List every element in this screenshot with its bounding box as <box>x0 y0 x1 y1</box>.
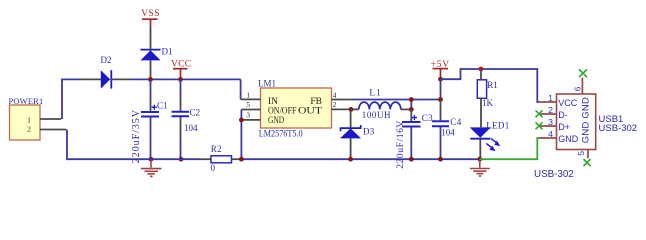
svg-text:104: 104 <box>184 123 198 133</box>
wire riser pin2 to bottom rail <box>67 130 199 160</box>
wire FB to C4 <box>440 100 442 121</box>
svg-text:4: 4 <box>548 129 553 139</box>
junction FB at C4 <box>438 97 443 102</box>
junction C1 bottom <box>149 157 154 162</box>
wire LM1 pin5 stub <box>241 109 260 111</box>
USB pin 2 stub <box>539 113 557 115</box>
wire R1 top stub <box>480 69 482 80</box>
svg-text:C1: C1 <box>157 100 168 110</box>
wire C4 to bottom rail <box>440 127 442 159</box>
svg-text:104: 104 <box>441 128 455 138</box>
junction at VCC rail <box>178 77 183 82</box>
junction D3 bottom <box>348 157 353 162</box>
capacitor C2 <box>172 112 190 116</box>
svg-text:5: 5 <box>246 101 250 109</box>
wire +5V step up and rail to USB <box>441 69 540 102</box>
wire R2 right gray segment <box>232 158 242 160</box>
wire gray segment to R2 <box>199 158 211 160</box>
svg-text:C3: C3 <box>422 113 433 123</box>
wire OUT to C3 <box>410 109 412 121</box>
svg-text:VSS: VSS <box>141 9 160 19</box>
junction OUT at C3 <box>409 107 414 112</box>
junction C3 bottom <box>409 157 414 162</box>
wire LM1 pin4 stub gray <box>332 99 352 101</box>
svg-text:D3: D3 <box>363 127 375 137</box>
svg-text:5: 5 <box>576 151 586 156</box>
svg-text:2: 2 <box>333 101 337 109</box>
schottky diode D3 <box>340 125 361 138</box>
wire D3 anode to bottom rail <box>350 138 352 159</box>
wire C3 column FB to OUT <box>410 100 412 110</box>
wire pin5 to pin3 to bottom rail <box>240 110 242 160</box>
wire C3 to bottom rail <box>410 128 412 160</box>
wire LM1 pin1 stub <box>241 98 261 100</box>
USB pin 6 stub <box>581 78 583 94</box>
resistor R2 <box>211 156 232 163</box>
wire rail to C2 <box>180 79 182 111</box>
junction pin3 <box>239 118 244 123</box>
ground symbol right <box>470 159 490 176</box>
USB pin 5 stub <box>587 150 589 159</box>
regulator U LM1 body <box>261 88 332 128</box>
ground symbol left <box>141 159 162 176</box>
svg-text:C4: C4 <box>450 117 461 127</box>
no-connect X pin 3 <box>536 122 543 129</box>
svg-text:R1: R1 <box>487 80 498 90</box>
resistor R1 <box>477 80 486 99</box>
wire C2 to bottom rail <box>180 117 182 159</box>
wire top rail blue segment <box>131 78 241 80</box>
svg-text:D2: D2 <box>101 55 112 65</box>
wire riser pin1 to top rail <box>62 79 81 119</box>
svg-text:220uF/16V: 220uF/16V <box>396 120 406 169</box>
svg-text:GND: GND <box>558 134 579 144</box>
svg-text:220uF/35V: 220uF/35V <box>131 109 142 163</box>
svg-text:USB-302: USB-302 <box>599 123 638 134</box>
power port VCC <box>171 60 191 80</box>
wire LM1 pin3 stub <box>241 119 260 121</box>
svg-text:2: 2 <box>548 105 553 115</box>
wire D1 anode to rail <box>150 60 152 79</box>
connector POWER1 body <box>10 105 41 140</box>
svg-text:LED1: LED1 <box>486 120 509 130</box>
junction OUT at D3 <box>349 107 354 112</box>
wire bottom rail blue <box>241 158 479 160</box>
diode D1 <box>141 50 161 61</box>
wire D2 cathode gray segment <box>111 78 131 80</box>
svg-text:1: 1 <box>27 116 31 124</box>
junction +5V <box>438 77 443 82</box>
junction C2 bottom <box>179 157 184 162</box>
capacitor C1 plus mark <box>152 105 157 110</box>
green wire USB GND to rail <box>480 138 539 159</box>
svg-text:LM1: LM1 <box>258 79 276 89</box>
svg-text:POWER1: POWER1 <box>9 96 44 106</box>
wire R1 to LED1 <box>480 98 482 127</box>
capacitor C4 <box>432 121 449 126</box>
svg-text:R2: R2 <box>211 144 222 154</box>
svg-text:6: 6 <box>573 87 583 92</box>
svg-text:D+: D+ <box>558 122 570 132</box>
wire VSS to D1 <box>150 28 152 50</box>
wire +5V down to FB line <box>440 79 442 99</box>
svg-text:GND: GND <box>268 116 284 126</box>
capacitor C3 plus mark <box>412 115 417 120</box>
svg-text:LM2576T5.0: LM2576T5.0 <box>259 128 303 138</box>
power port VSS <box>141 9 160 27</box>
wire FB line blue <box>351 99 440 101</box>
svg-text:C2: C2 <box>190 107 201 117</box>
svg-text:4: 4 <box>333 91 337 99</box>
connector USB1 body <box>557 94 596 150</box>
wire rail to C1 <box>150 79 152 111</box>
capacitor C3 <box>402 122 421 127</box>
wire VCC rail down to LM1 pin1 <box>240 79 242 99</box>
USB pin 1 stub <box>539 101 557 103</box>
power port +5V <box>431 60 450 79</box>
junction LED bottom <box>477 157 482 162</box>
LED LED1 <box>470 127 501 151</box>
capacitor C1 <box>141 112 159 117</box>
no-connect X pin 5 <box>584 159 591 166</box>
svg-text:D1: D1 <box>162 47 173 57</box>
wire LM1 pin2 stub gray <box>332 108 359 110</box>
svg-text:1: 1 <box>246 91 250 99</box>
svg-text:100UH: 100UH <box>362 110 391 120</box>
svg-text:OUT: OUT <box>298 107 322 117</box>
svg-text:GND GND: GND GND <box>581 97 592 143</box>
svg-text:2: 2 <box>27 126 31 134</box>
svg-text:1: 1 <box>548 93 553 103</box>
svg-text:0: 0 <box>211 163 216 173</box>
USB pin 3 stub <box>539 125 557 127</box>
wire C1 to bottom rail <box>150 118 152 160</box>
svg-text:ON/OFF: ON/OFF <box>268 107 297 117</box>
svg-text:1K: 1K <box>482 98 494 108</box>
USB pin 4 stub <box>539 137 557 139</box>
junction R1 top <box>479 67 484 72</box>
inductor L1 <box>359 102 401 109</box>
junction at D1 rail <box>148 77 153 82</box>
junction R2 right <box>239 157 244 162</box>
wire POWER1 pin2 stub <box>40 129 66 131</box>
svg-text:USB-302: USB-302 <box>534 169 574 180</box>
svg-text:3: 3 <box>548 117 553 127</box>
svg-text:L1: L1 <box>369 89 381 99</box>
wire POWER1 pin1 stub <box>40 118 61 120</box>
svg-text:VCC: VCC <box>558 98 578 108</box>
junction C4 bottom <box>438 157 443 162</box>
svg-text:IN: IN <box>268 97 278 107</box>
wire LED1 to bottom rail <box>479 140 481 160</box>
no-connect X pin 2 <box>536 110 543 117</box>
svg-text:D-: D- <box>558 110 568 120</box>
wire D3 top <box>350 109 352 127</box>
wire top rail gray segment to D2 <box>81 78 102 80</box>
junction FB at C3 <box>409 97 414 102</box>
diode D2 <box>101 70 112 88</box>
svg-text:3: 3 <box>246 112 250 120</box>
svg-text:FB: FB <box>310 97 322 107</box>
no-connect X pin 6 <box>579 69 587 77</box>
